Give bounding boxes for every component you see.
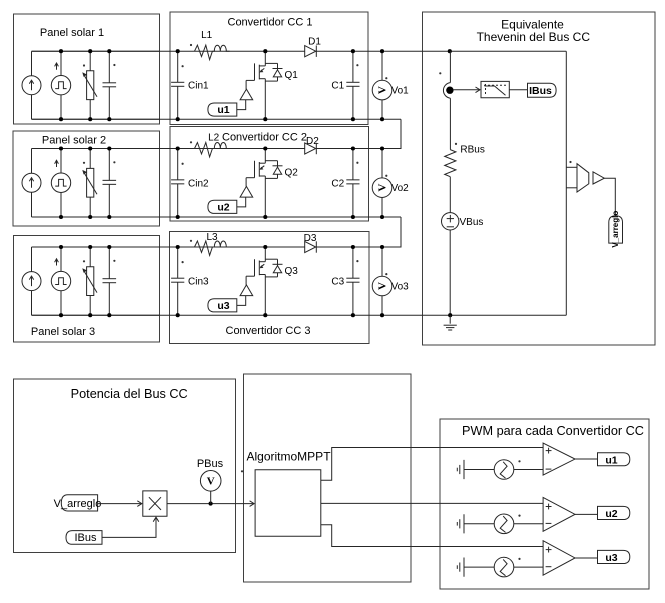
shunt capacitor panel 3 xyxy=(108,247,110,279)
subsystem box: Potencia del Bus CC xyxy=(14,379,236,553)
sawtooth generator 1 xyxy=(494,460,514,480)
wire sawtooth to comparator 3 minus input xyxy=(514,566,543,568)
svg-text:IBus: IBus xyxy=(74,532,97,544)
wire u2 to gate driver xyxy=(237,197,246,207)
series link row1-row2 xyxy=(382,119,401,148)
svg-text:Thevenin del Bus CC: Thevenin del Bus CC xyxy=(477,30,591,44)
body diode of Q1 xyxy=(265,62,277,64)
Goto tag IBus xyxy=(528,83,557,97)
Goto tag u2 xyxy=(598,506,630,519)
controlled current source (irradiance) panel 2 xyxy=(60,149,62,174)
svg-text:L2: L2 xyxy=(208,132,220,143)
svg-text:Cin2: Cin2 xyxy=(188,178,209,189)
subsystem box: Convertidor CC 2 xyxy=(170,127,369,222)
wire ground to sawtooth 3 xyxy=(464,566,494,568)
gate driver buffer 3 xyxy=(245,276,247,285)
Panel solar 2 internals: top rail xyxy=(32,148,160,150)
subsystem box: AlgoritmoMPPT xyxy=(244,374,412,582)
svg-text:u2: u2 xyxy=(605,508,617,520)
subsystem box: Equivalente Thevenin del Bus CC xyxy=(423,12,656,345)
svg-text:Convertidor CC 1: Convertidor CC 1 xyxy=(228,16,313,28)
wire filter to IBus goto xyxy=(509,89,527,91)
input capacitor Cin2 xyxy=(177,149,179,180)
bottom rail segment (panel) xyxy=(32,314,160,316)
wire V_arreglo to product xyxy=(98,503,142,505)
svg-text:C2: C2 xyxy=(331,178,344,189)
boost diode D1 xyxy=(305,46,316,57)
first-order filter block xyxy=(481,81,509,97)
subsystem box: Panel solar 2 xyxy=(13,131,160,226)
sawtooth generator 2 xyxy=(494,514,514,534)
row 2 bottom rail xyxy=(32,216,402,218)
subsystem box: Panel solar 3 xyxy=(14,236,160,343)
svg-text:Potencia del Bus CC: Potencia del Bus CC xyxy=(71,387,188,401)
row 2 top rail xyxy=(32,148,402,150)
svg-text:u3: u3 xyxy=(605,552,617,564)
Panel solar 3 internals: top rail xyxy=(32,246,160,248)
bottom rail segment (panel) xyxy=(32,216,160,218)
sawtooth generator 3 xyxy=(494,557,514,577)
svg-text:V: V xyxy=(377,282,389,290)
svg-text:Cin3: Cin3 xyxy=(188,277,209,288)
wire u3 to gate driver xyxy=(237,296,246,306)
Goto tag u3 xyxy=(598,550,630,563)
subsystem box: PWM para cada Convertidor CC xyxy=(440,419,649,589)
signal wire to filter block xyxy=(454,89,480,91)
drain wire Q3 xyxy=(264,247,266,262)
boost diode D3 xyxy=(305,241,316,252)
controlled current source (irradiance) panel 1 xyxy=(60,51,62,75)
signal arrow above source xyxy=(56,64,58,70)
wire to V_arreglo goto xyxy=(604,178,615,216)
resistor RBus xyxy=(445,150,456,177)
current measurement IBus (half-circle with dot) xyxy=(443,83,450,99)
row 1 bottom rail xyxy=(32,118,402,120)
source wire Q2 xyxy=(264,176,266,217)
svg-text:V_arreglo: V_arreglo xyxy=(54,498,102,510)
From tag IBus xyxy=(66,531,102,545)
wire RBus to VBus xyxy=(449,177,451,213)
inductor L3 (RL branch) xyxy=(190,240,192,242)
output triangle xyxy=(593,172,604,184)
wire sawtooth to comparator 2 minus input xyxy=(514,523,543,525)
svg-text:Panel solar 1: Panel solar 1 xyxy=(40,27,104,39)
MPPT output 3 wire to PWM 3 xyxy=(321,525,543,547)
svg-text:Panel solar 3: Panel solar 3 xyxy=(31,326,95,338)
bottom rail segment (panel) xyxy=(32,118,160,120)
output wire comparator 1 xyxy=(575,458,598,460)
variable resistor (diode eq) panel 2 xyxy=(89,149,91,169)
svg-text:PBus: PBus xyxy=(197,458,224,470)
current source Is2 xyxy=(31,149,33,174)
wire product to MPPT xyxy=(167,503,254,505)
voltage measurement Vo1 xyxy=(381,51,383,80)
ground xyxy=(449,315,451,324)
From tag V_arreglo xyxy=(61,495,97,511)
svg-text:Vo3: Vo3 xyxy=(392,282,410,293)
svg-text:PWM para cada Convertidor CC: PWM para cada Convertidor CC xyxy=(462,424,644,438)
output wire comparator 2 xyxy=(575,513,598,515)
gate driver buffer 2 xyxy=(245,178,247,187)
node: bus tap junction xyxy=(448,49,452,53)
source wire Q3 xyxy=(264,275,266,316)
variable resistor (diode eq) panel 1 xyxy=(89,51,91,71)
input capacitor Cin1 xyxy=(177,51,179,82)
wire IBus to product xyxy=(102,517,156,537)
wire current measurement to RBus xyxy=(449,98,451,149)
DC source VBus xyxy=(442,213,459,230)
PBus voltmeter display xyxy=(200,471,221,492)
svg-text:L1: L1 xyxy=(201,30,213,41)
svg-text:Vo1: Vo1 xyxy=(392,86,410,97)
output capacitor C1 xyxy=(352,51,354,82)
comparator triangle 3 xyxy=(543,541,575,576)
current source Is1 xyxy=(31,51,33,75)
boost diode D2 xyxy=(305,143,316,154)
svg-text:V_arreglo: V_arreglo xyxy=(611,211,620,248)
From tag u2 xyxy=(208,200,237,213)
row 3 bottom rail / DC bus negative xyxy=(32,314,567,316)
wire sawtooth to comparator 1 minus input xyxy=(514,469,543,471)
svg-text:Panel solar 2: Panel solar 2 xyxy=(42,134,106,146)
source wire Q1 xyxy=(264,79,266,120)
voltage measurement stubs xyxy=(566,166,577,168)
svg-text:Q3: Q3 xyxy=(285,266,299,277)
MPPT output 2 wire to PWM 2 xyxy=(321,502,543,504)
subsystem box: Convertidor CC 1 xyxy=(170,12,368,125)
signal arrow above source xyxy=(56,161,58,167)
svg-text:Vo2: Vo2 xyxy=(392,183,410,194)
From tag u3 xyxy=(208,299,237,312)
svg-text:D1: D1 xyxy=(308,36,321,47)
Panel solar 1 internals: top rail xyxy=(32,50,160,52)
svg-text:Convertidor CC 3: Convertidor CC 3 xyxy=(226,325,311,337)
signal arrow above source xyxy=(56,260,58,266)
output capacitor C3 xyxy=(352,247,354,278)
shunt capacitor panel 1 xyxy=(108,51,110,83)
drain wire Q2 xyxy=(264,149,266,164)
ground (reference) PWM row 1 xyxy=(456,468,458,472)
wire ground to sawtooth 2 xyxy=(464,523,494,525)
input capacitor Cin3 xyxy=(177,247,179,278)
Goto tag V_arreglo (rotated) xyxy=(609,216,623,243)
svg-text:RBus: RBus xyxy=(460,145,484,156)
product block (multiply) xyxy=(143,491,167,516)
svg-text:u3: u3 xyxy=(217,300,229,312)
inductor L1 (RL branch) xyxy=(190,44,192,46)
ground (reference) PWM row 3 xyxy=(456,565,458,569)
current source Is3 xyxy=(31,247,33,272)
subsystem box: Convertidor CC 3 xyxy=(170,232,370,344)
wire ground to sawtooth 1 xyxy=(464,469,494,471)
comparator triangle 2 xyxy=(543,497,575,531)
drain wire Q1 xyxy=(264,51,266,66)
svg-text:AlgoritmoMPPT: AlgoritmoMPPT xyxy=(247,449,332,463)
svg-text:V: V xyxy=(377,184,389,192)
gate driver buffer 1 xyxy=(245,80,247,89)
MOSFET Q2 xyxy=(254,161,256,178)
variable resistor (diode eq) panel 3 xyxy=(89,247,91,267)
svg-text:Convertidor CC 2: Convertidor CC 2 xyxy=(222,131,307,143)
svg-text:Cin1: Cin1 xyxy=(188,81,209,92)
subsystem box: Panel solar 1 xyxy=(14,14,160,124)
wire VBus to ground rail xyxy=(449,230,451,315)
series link row2-row3 xyxy=(382,217,401,247)
inductor L2 (RL branch) xyxy=(190,141,192,143)
svg-text:IBus: IBus xyxy=(529,85,552,97)
From tag u1 xyxy=(208,103,237,116)
svg-text:u2: u2 xyxy=(217,202,229,214)
svg-text:u1: u1 xyxy=(217,104,229,116)
MPPT output 1 wire to PWM 1 xyxy=(321,448,543,481)
wire u1 to gate driver xyxy=(237,100,246,110)
row 3 top rail xyxy=(32,246,402,248)
svg-text:C3: C3 xyxy=(331,277,344,288)
svg-text:V: V xyxy=(377,86,389,94)
ground (reference) PWM row 2 xyxy=(456,522,458,526)
MPPT subsystem block xyxy=(241,470,243,472)
MOSFET Q1 xyxy=(254,63,256,80)
PBus display stub xyxy=(210,491,212,504)
voltage measurement Vo2 xyxy=(381,149,383,178)
svg-text:V: V xyxy=(207,475,215,487)
svg-text:C1: C1 xyxy=(331,81,344,92)
DC bus right-side wire xyxy=(565,51,567,315)
shunt capacitor panel 2 xyxy=(108,149,110,181)
svg-text:Q1: Q1 xyxy=(285,70,299,81)
controlled current source (irradiance) panel 3 xyxy=(60,247,62,271)
body diode of Q3 xyxy=(265,258,277,260)
body diode of Q2 xyxy=(265,160,277,162)
svg-text:u1: u1 xyxy=(605,454,617,466)
voltage measurement Vo3 xyxy=(381,247,383,276)
comparator triangle 1 xyxy=(543,443,575,475)
output wire comparator 3 xyxy=(575,557,598,559)
svg-text:Q2: Q2 xyxy=(285,167,299,178)
voltage measurement V_arreglo (trapezoid) xyxy=(577,164,589,192)
Goto tag u1 xyxy=(598,453,630,466)
wire down to current measurement xyxy=(449,51,451,82)
output capacitor C2 xyxy=(352,149,354,180)
svg-text:VBus: VBus xyxy=(460,217,484,228)
MOSFET Q3 xyxy=(254,259,256,276)
row 1 top rail / DC bus positive xyxy=(32,50,567,52)
